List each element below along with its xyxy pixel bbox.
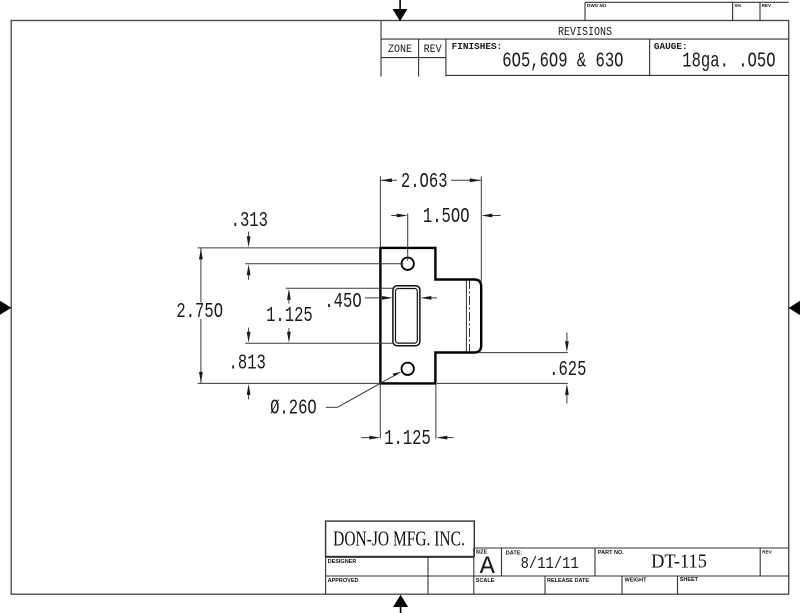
svg-text:APPROVED: APPROVED bbox=[328, 578, 359, 584]
svg-text:1.125: 1.125 bbox=[266, 304, 313, 328]
svg-text:2.75O: 2.75O bbox=[176, 300, 223, 324]
svg-text:ZONE: ZONE bbox=[388, 44, 412, 57]
svg-text:SHEET: SHEET bbox=[680, 577, 699, 583]
svg-text:.45O: .45O bbox=[324, 290, 361, 314]
svg-text:WEIGHT: WEIGHT bbox=[625, 578, 648, 584]
svg-text:A: A bbox=[480, 552, 496, 581]
svg-text:REV: REV bbox=[424, 44, 443, 57]
svg-text:Ø.26O: Ø.26O bbox=[270, 396, 317, 420]
svg-text:DWG NO: DWG NO bbox=[587, 3, 607, 8]
svg-text:.813: .813 bbox=[229, 351, 266, 375]
svg-text:8/11/11: 8/11/11 bbox=[521, 554, 579, 573]
svg-text:6O5,6O9 & 63O: 6O5,6O9 & 63O bbox=[502, 50, 623, 74]
svg-text:REV: REV bbox=[762, 550, 772, 555]
svg-text:PART NO.: PART NO. bbox=[598, 550, 624, 556]
svg-text:DT-115: DT-115 bbox=[651, 551, 707, 573]
svg-text:2.O63: 2.O63 bbox=[401, 170, 448, 194]
svg-text:.625: .625 bbox=[549, 358, 586, 382]
svg-text:18ga. .O5O: 18ga. .O5O bbox=[682, 50, 775, 74]
svg-text:SH: SH bbox=[734, 3, 741, 8]
svg-text:RELEASE DATE: RELEASE DATE bbox=[547, 578, 589, 584]
svg-text:1.5OO: 1.5OO bbox=[423, 205, 470, 229]
svg-text:DESIGNER: DESIGNER bbox=[328, 559, 357, 565]
svg-text:FINISHES:: FINISHES: bbox=[452, 41, 503, 52]
svg-text:REVISIONS: REVISIONS bbox=[558, 26, 612, 39]
svg-text:1.125: 1.125 bbox=[384, 427, 431, 451]
svg-text:DON-JO MFG. INC.: DON-JO MFG. INC. bbox=[333, 527, 465, 550]
svg-text:.313: .313 bbox=[231, 209, 268, 233]
svg-text:REV: REV bbox=[762, 3, 772, 8]
